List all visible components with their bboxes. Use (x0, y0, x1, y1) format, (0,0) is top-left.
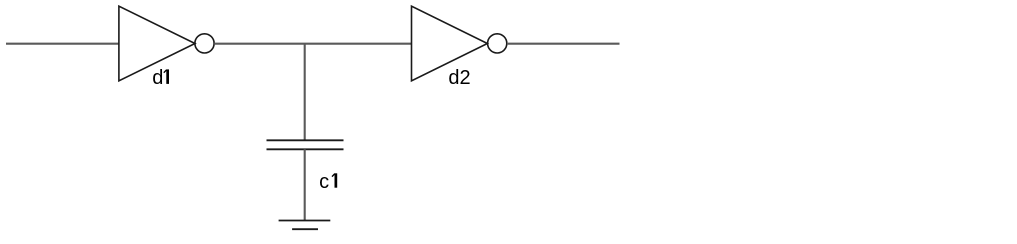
svg-text:d2: d2 (448, 67, 470, 89)
svg-text:d: d (152, 67, 163, 89)
svg-text:c: c (319, 171, 329, 193)
